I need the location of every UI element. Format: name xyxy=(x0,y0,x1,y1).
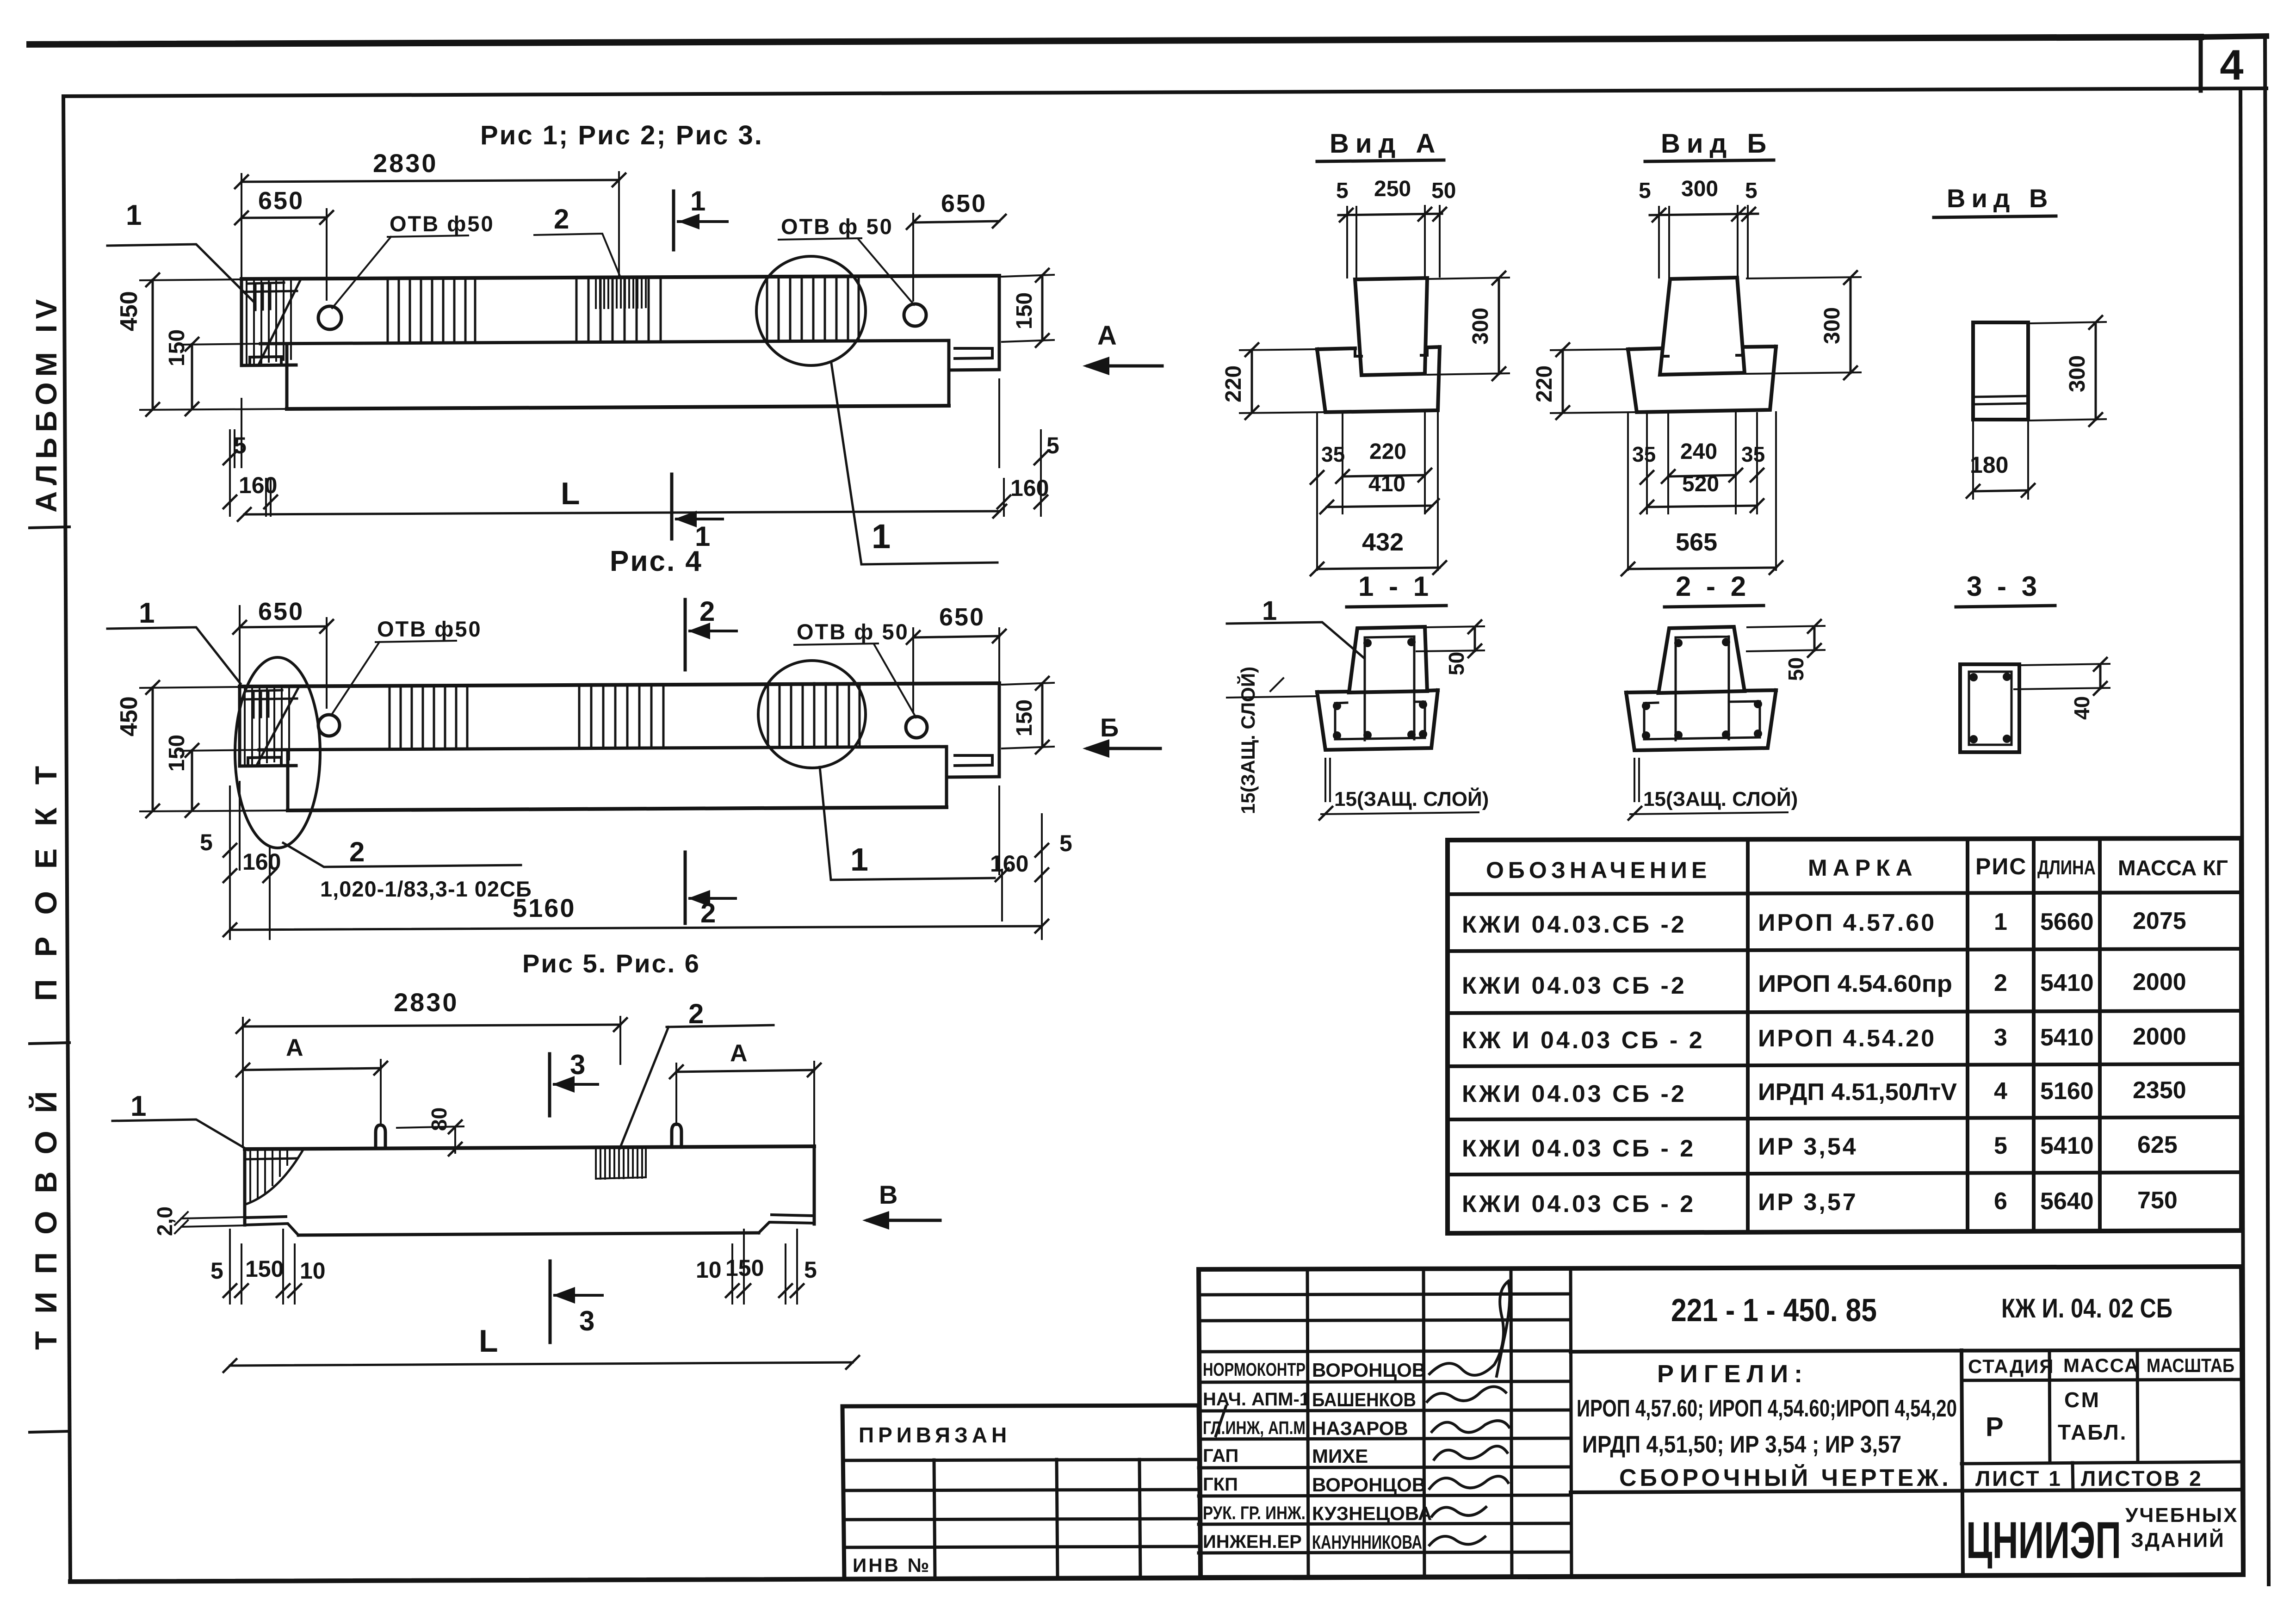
beam 3 bottom left bearing plate xyxy=(245,1217,298,1235)
signature table row lines xyxy=(1199,1294,1571,1553)
beam 1 dim 2830 ticks xyxy=(235,173,625,188)
svg-text:ИНЖЕН.ЕР: ИНЖЕН.ЕР xyxy=(1203,1532,1302,1552)
beam 2 dim 150 right extensions xyxy=(1002,683,1054,748)
signature table column lines xyxy=(1307,1268,1572,1577)
frame bottom line xyxy=(70,1575,2243,1582)
svg-text:ИРОП 4.57.60: ИРОП 4.57.60 xyxy=(1758,909,1936,936)
beam 3 section mark 3 bottom xyxy=(549,1261,552,1342)
svg-text:35: 35 xyxy=(1741,442,1765,466)
beam 2 dim 650 left extensions xyxy=(240,606,327,708)
svg-text:5660: 5660 xyxy=(2040,909,2094,935)
beam 1 dim 650 left extension xyxy=(326,209,328,300)
section 1-1 top part outline xyxy=(1349,627,1427,693)
beam 1 left bearing plate xyxy=(250,357,281,365)
svg-text:5: 5 xyxy=(234,433,247,458)
svg-text:КЖИ 04.03 СБ -2: КЖИ 04.03 СБ -2 xyxy=(1462,972,1687,999)
svg-text:МАСШТАБ: МАСШТАБ xyxy=(2147,1354,2234,1376)
svg-text:50: 50 xyxy=(1444,652,1468,675)
svg-text:160: 160 xyxy=(990,851,1028,877)
beam 2 left end anchor bar xyxy=(246,690,282,717)
svg-text:150: 150 xyxy=(245,1256,284,1282)
beam 1 dim 150 left line xyxy=(191,344,193,409)
svg-text:4: 4 xyxy=(1994,1078,2007,1105)
beam 2 left end bottom xyxy=(240,766,296,766)
svg-text:2: 2 xyxy=(700,897,716,928)
view Б dim 520 row xyxy=(1647,506,1757,507)
beam 2 ОТВ ф50 right underline and leader xyxy=(794,643,916,717)
svg-text:300: 300 xyxy=(2065,355,2090,392)
view A top dim line xyxy=(1338,214,1442,215)
svg-text:КАНУННИКОВА: КАНУННИКОВА xyxy=(1312,1531,1422,1553)
section 2-2 rebar dots xyxy=(1642,638,1762,740)
signature table name labels xyxy=(1312,1359,1432,1553)
beam 2 dim 150 left extension xyxy=(180,750,257,751)
beam 1 dim 650 left line xyxy=(241,217,327,218)
parts table row line 3 xyxy=(1448,1064,2241,1066)
top scan bar xyxy=(30,37,2201,44)
beam 1 left end bottom xyxy=(241,365,296,365)
frame right outer line xyxy=(2265,36,2269,1584)
parts table column line 2 xyxy=(1966,839,1969,1231)
view Б top dim line xyxy=(1650,214,1758,215)
svg-text:ТАБЛ.: ТАБЛ. xyxy=(2058,1420,2127,1444)
svg-text:ВОРОНЦОВ: ВОРОНЦОВ xyxy=(1312,1359,1426,1381)
fold mark 3 xyxy=(30,1431,69,1432)
svg-text:5: 5 xyxy=(1994,1132,2007,1159)
svg-text:300: 300 xyxy=(1468,308,1493,345)
svg-text:РИС: РИС xyxy=(1975,853,2027,879)
beam 2 right edge xyxy=(998,683,1001,777)
svg-text:ГАП: ГАП xyxy=(1203,1446,1238,1466)
beam 3 section mark 3 top xyxy=(548,1054,551,1116)
svg-text:СБОРОЧНЫЙ ЧЕРТЕЖ.: СБОРОЧНЫЙ ЧЕРТЕЖ. xyxy=(1619,1464,1952,1491)
svg-text:ПРОЕКТ: ПРОЕКТ xyxy=(29,744,63,1001)
svg-text:НАЗАРОВ: НАЗАРОВ xyxy=(1312,1417,1408,1439)
beam 2 dim 450 left extensions xyxy=(140,687,286,811)
parts table column line 1 xyxy=(1746,840,1750,1232)
svg-text:5: 5 xyxy=(1745,179,1758,203)
view Б dim 35 240 35 row xyxy=(1668,475,1736,476)
section 2-2 dim 50 right xyxy=(1747,626,1825,651)
parts table row line 2 xyxy=(1448,1011,2241,1013)
svg-text:ИР 3,57: ИР 3,57 xyxy=(1758,1189,1858,1216)
beam 1 dim 2830 extensions xyxy=(241,172,619,278)
beam 2 dim 450 left ticks xyxy=(146,681,159,817)
parts table outer border xyxy=(1448,838,2241,1233)
svg-text:625: 625 xyxy=(2137,1132,2178,1158)
section 1-1 bottom flange outline xyxy=(1317,690,1438,750)
stadия block value bottom line xyxy=(1962,1462,2241,1464)
svg-text:ПРИВЯЗАН: ПРИВЯЗАН xyxy=(859,1423,1011,1447)
svg-text:150: 150 xyxy=(1012,699,1037,736)
beam 2 detail circle xyxy=(758,661,866,768)
beam 1 ОТВ ф50 left underline and leader xyxy=(332,235,468,308)
view A dim 35 220 row xyxy=(1343,475,1425,476)
svg-text:410: 410 xyxy=(1368,472,1405,496)
parts table column line 3 xyxy=(2032,839,2036,1231)
svg-text:А: А xyxy=(1097,321,1117,351)
beam 1 section mark 1 bottom xyxy=(670,474,674,539)
svg-text:220: 220 xyxy=(1532,365,1557,402)
svg-text:СМ: СМ xyxy=(2064,1388,2101,1412)
section 1-1 dim 50 right xyxy=(1417,626,1484,651)
beam 2 deep section bottom xyxy=(288,807,947,810)
section 3-3 outline xyxy=(1960,664,2019,752)
svg-text:L: L xyxy=(561,476,580,511)
beam 2 deep section right edge xyxy=(945,747,948,807)
svg-text:5: 5 xyxy=(1046,433,1059,458)
svg-text:5: 5 xyxy=(1639,179,1651,203)
beam 2 detail ellipse xyxy=(235,657,320,848)
beam 1 dim 450 left line xyxy=(152,280,154,409)
svg-text:250: 250 xyxy=(1374,177,1411,201)
section 2-2 top part outline xyxy=(1659,627,1745,693)
svg-text:МАРКА: МАРКА xyxy=(1808,855,1918,881)
svg-text:650: 650 xyxy=(939,603,985,631)
svg-text:ОБОЗНАЧЕНИЕ: ОБОЗНАЧЕНИЕ xyxy=(1486,857,1711,883)
beam 2 detail 2 leader and label xyxy=(283,843,521,867)
beam 3 dim 2830 line xyxy=(243,1025,620,1027)
svg-text:160: 160 xyxy=(242,849,281,875)
svg-text:40: 40 xyxy=(2070,696,2094,720)
beam 2 bottom right dim ticks xyxy=(996,844,1048,881)
svg-text:3: 3 xyxy=(579,1305,594,1336)
svg-text:150: 150 xyxy=(165,735,189,772)
beam 1 dim 150 right extensions xyxy=(1002,275,1054,342)
beam 2 left edge xyxy=(238,686,241,766)
view Б top part outline xyxy=(1660,278,1745,375)
beam 3 left end hatch xyxy=(250,1150,287,1202)
svg-text:А: А xyxy=(286,1034,303,1061)
view A top dim ticks xyxy=(1340,208,1446,222)
svg-text:Б: Б xyxy=(1100,713,1119,742)
svg-text:1: 1 xyxy=(872,517,891,556)
svg-text:ЛИСТОВ 2: ЛИСТОВ 2 xyxy=(2081,1466,2203,1490)
svg-text:220: 220 xyxy=(1221,365,1246,402)
beam 2 left bearing plate xyxy=(248,757,281,766)
view A dim 300 right xyxy=(1428,278,1509,375)
svg-text:1: 1 xyxy=(1994,909,2007,935)
frame left line xyxy=(63,96,70,1582)
view В dim 180 bottom xyxy=(1973,421,2028,499)
svg-text:Рис 5. Рис. 6: Рис 5. Рис. 6 xyxy=(522,949,700,978)
svg-text:450: 450 xyxy=(116,291,142,331)
svg-text:1: 1 xyxy=(690,186,706,216)
svg-text:1: 1 xyxy=(130,1090,146,1122)
parts table row 2 xyxy=(1462,969,2186,999)
beam 3 mid anchor hatch xyxy=(596,1148,646,1179)
beam 2 section mark 2 bottom xyxy=(684,852,687,923)
parts table row 4 xyxy=(1462,1077,2186,1107)
svg-text:РИГЕЛИ:: РИГЕЛИ: xyxy=(1657,1360,1808,1388)
beam 1 dim 650 right line xyxy=(913,221,999,223)
svg-text:Вид В: Вид В xyxy=(1947,184,2054,213)
beam 2 dim 150 right line xyxy=(1041,683,1044,747)
view Б dim 565 row xyxy=(1628,568,1776,569)
svg-text:3: 3 xyxy=(1994,1024,2007,1051)
beam 2 dim 650 left ticks xyxy=(233,620,333,634)
beam 3 dim L ticks xyxy=(223,1356,859,1372)
svg-text:ОТВ ф50: ОТВ ф50 xyxy=(377,617,482,641)
svg-text:КЖИ 04.03 СБ - 2: КЖИ 04.03 СБ - 2 xyxy=(1462,1135,1696,1162)
beam 3 lifting loop left xyxy=(376,1125,385,1148)
svg-text:ОТВ ф 50: ОТВ ф 50 xyxy=(797,619,909,644)
svg-text:300: 300 xyxy=(1820,307,1844,344)
svg-text:БАШЕНКОВ: БАШЕНКОВ xyxy=(1312,1389,1416,1410)
svg-text:УЧЕБНЫХ: УЧЕБНЫХ xyxy=(2125,1504,2238,1527)
parts table row 6 xyxy=(1462,1187,2178,1218)
svg-text:6: 6 xyxy=(1994,1188,2007,1215)
view Б top dim ticks xyxy=(1652,208,1755,222)
svg-text:L: L xyxy=(479,1323,498,1359)
beam 1 hatch group 1 xyxy=(388,278,475,342)
svg-text:2: 2 xyxy=(1994,970,2007,996)
svg-text:4: 4 xyxy=(2220,42,2243,89)
beam 2 left end horizontal rib xyxy=(240,699,297,699)
beam 1 web bottom line xyxy=(260,340,949,344)
beam 3 bottom right bearing plate xyxy=(759,1215,814,1233)
beam 2 dim 5160 ticks xyxy=(223,920,1048,936)
beam 3 right edge xyxy=(813,1146,816,1224)
parts table row line 4 xyxy=(1448,1117,2241,1119)
beam 2 right bearing notch xyxy=(955,755,992,766)
svg-text:ВОРОНЦОВ: ВОРОНЦОВ xyxy=(1312,1474,1426,1496)
view A shoe notch steps xyxy=(1355,347,1427,356)
svg-text:3 - 3: 3 - 3 xyxy=(1967,571,2041,602)
beam 1 section mark 1 top xyxy=(672,191,675,250)
svg-text:5: 5 xyxy=(804,1257,817,1283)
beam 1 bottom right dim ticks xyxy=(997,451,1047,508)
привязан header separator xyxy=(843,1459,1199,1460)
svg-text:КЖ И. 04. 02 СБ: КЖ И. 04. 02 СБ xyxy=(2001,1293,2172,1323)
page number box xyxy=(2201,36,2266,37)
svg-text:Рис. 4: Рис. 4 xyxy=(610,545,703,577)
svg-text:35: 35 xyxy=(1321,442,1345,466)
view A dim 432 row xyxy=(1317,568,1440,569)
привязан column lines xyxy=(934,1459,1140,1578)
svg-text:КЖИ 04.03.СБ -2: КЖИ 04.03.СБ -2 xyxy=(1462,911,1687,938)
beam 3 bottom left dim ticks xyxy=(223,1284,301,1297)
svg-text:В: В xyxy=(879,1180,897,1209)
beam 1 hole left ОТВ ф50 xyxy=(318,306,341,329)
section 1-1 rebar dots xyxy=(1333,638,1427,740)
beam 3 dim L line xyxy=(230,1362,853,1366)
svg-text:35: 35 xyxy=(1632,442,1656,466)
section 2-2 bottom flange outline xyxy=(1626,690,1776,750)
beam 1 hatch group 2 xyxy=(576,277,661,341)
beam 1 deep section right edge xyxy=(947,340,951,406)
beam 2 hatch group 2 xyxy=(579,684,663,748)
beam 1 bottom left dim extensions xyxy=(230,399,271,516)
beam 1 left end hatch xyxy=(247,279,291,364)
svg-text:1 - 1: 1 - 1 xyxy=(1358,571,1432,602)
beam 3 bottom left dim extensions xyxy=(230,1230,295,1304)
beam 3 dim 2830 ticks xyxy=(236,1018,627,1033)
svg-text:ИРОП 4.54.20: ИРОП 4.54.20 xyxy=(1758,1025,1936,1052)
svg-text:300: 300 xyxy=(1681,177,1718,201)
beam 1 dim 650 right ticks xyxy=(907,215,1006,229)
svg-text:1: 1 xyxy=(139,597,155,629)
svg-text:150: 150 xyxy=(725,1255,764,1281)
beam 1 right end bottom xyxy=(949,370,999,370)
beam 1 hole right ОТВ ф50 xyxy=(904,304,926,326)
beam 2 hatch group 3 in detail circle xyxy=(768,683,860,747)
svg-text:3: 3 xyxy=(570,1049,585,1080)
svg-text:160: 160 xyxy=(239,472,277,498)
title block lower band separator xyxy=(1571,1490,2241,1492)
view В outline xyxy=(1973,322,2028,420)
svg-text:2: 2 xyxy=(554,204,569,235)
view A bottom dims extensions xyxy=(1317,412,1438,570)
parts table column line 4 xyxy=(2098,839,2102,1231)
svg-text:520: 520 xyxy=(1682,472,1719,496)
view Б dim 220 left xyxy=(1551,349,1635,413)
stadия block column lines xyxy=(2049,1350,2138,1463)
parts table header texts xyxy=(1486,853,2228,883)
beam 1 right edge xyxy=(998,276,1001,370)
beam 2 hatch group 1 xyxy=(390,685,467,749)
svg-text:750: 750 xyxy=(2137,1187,2178,1214)
svg-text:10: 10 xyxy=(300,1258,326,1284)
beam 1 dim 450 left extensions xyxy=(140,279,285,410)
section 1-1 bottom label 15 защ слой xyxy=(1325,759,1330,801)
svg-text:5: 5 xyxy=(200,829,213,855)
привязан table outer border xyxy=(842,1405,1201,1579)
svg-text:ИРОП 4.54.60пр: ИРОП 4.54.60пр xyxy=(1758,971,1952,997)
svg-text:ИРДП 4,51,50; ИР 3,54 ; ИР 3: ИРДП 4,51,50; ИР 3,54 ; ИР 3,57 xyxy=(1582,1431,1901,1458)
beam 3 top edge xyxy=(245,1146,814,1149)
section 3-3 rebar dots xyxy=(1969,673,2011,743)
beam 2 hole left ОТВ ф50 xyxy=(318,715,340,736)
svg-text:5: 5 xyxy=(1336,179,1349,203)
svg-text:1: 1 xyxy=(1262,596,1277,626)
svg-text:5410: 5410 xyxy=(2040,1024,2094,1051)
beam 1 deep section left edge xyxy=(285,344,289,409)
beam 1 left end bevel diagonal xyxy=(259,279,301,364)
view A top dim extensions xyxy=(1347,206,1440,278)
beam 1 left end horizontal rib xyxy=(241,291,297,292)
svg-text:15(ЗАЩ. СЛОЙ): 15(ЗАЩ. СЛОЙ) xyxy=(1334,787,1489,810)
beam 2 web bottom line xyxy=(259,747,947,750)
beam 2 right end bottom xyxy=(947,777,999,777)
svg-text:450: 450 xyxy=(116,696,142,736)
svg-text:2830: 2830 xyxy=(394,988,459,1017)
beam 2 hole right ОТВ ф50 xyxy=(906,717,927,738)
beam 1 dim 2830 line xyxy=(241,180,619,182)
view A bottom shoe outline xyxy=(1317,347,1440,412)
svg-text:220: 220 xyxy=(1369,439,1406,464)
svg-text:2: 2 xyxy=(688,998,704,1029)
beam 1 dense anchor hatch group 2 top xyxy=(596,277,646,308)
beam 3 bottom main line xyxy=(298,1233,759,1235)
svg-text:КЖИ 04.03 СБ - 2: КЖИ 04.03 СБ - 2 xyxy=(1462,1191,1696,1218)
svg-text:5410: 5410 xyxy=(2040,970,2094,996)
svg-text:РУК. ГР. ИНЖ.: РУК. ГР. ИНЖ. xyxy=(1203,1503,1306,1523)
fold mark 1 xyxy=(30,527,69,528)
beam 1 right bearing notch xyxy=(955,348,992,359)
svg-text:565: 565 xyxy=(1676,528,1717,556)
svg-text:2830: 2830 xyxy=(373,148,438,178)
beam 1 bottom right dim extensions xyxy=(999,379,1041,516)
frame right inner line xyxy=(2240,89,2244,1575)
svg-text:240: 240 xyxy=(1680,439,1717,464)
svg-text:МАССА: МАССА xyxy=(2063,1354,2139,1376)
svg-text:5: 5 xyxy=(210,1258,223,1284)
svg-text:2 - 2: 2 - 2 xyxy=(1676,571,1750,602)
beam 1 left edge xyxy=(240,279,243,365)
svg-text:2350: 2350 xyxy=(2133,1077,2186,1104)
svg-text:АЛЬБОМ IV: АЛЬБОМ IV xyxy=(30,294,63,513)
svg-text:650: 650 xyxy=(941,190,987,217)
parts table row 1 xyxy=(1462,908,2186,938)
svg-text:1: 1 xyxy=(695,521,710,552)
beam 1 detail circle xyxy=(756,256,866,365)
svg-text:Вид А: Вид А xyxy=(1330,129,1442,159)
svg-text:50: 50 xyxy=(1431,179,1456,203)
section 2-2 bottom label 15 защ слой xyxy=(1634,759,1639,801)
svg-text:5640: 5640 xyxy=(2040,1188,2094,1215)
beam 3 left edge xyxy=(243,1149,247,1225)
svg-text:КУЗНЕЦОВА: КУЗНЕЦОВА xyxy=(1312,1503,1432,1524)
svg-text:5: 5 xyxy=(1059,830,1072,856)
svg-text:1: 1 xyxy=(850,841,868,878)
central divider xyxy=(1962,1350,1963,1576)
svg-text:МИХЕ: МИХЕ xyxy=(1312,1445,1368,1467)
beam 2 dim 650 right extensions xyxy=(913,628,999,712)
svg-text:ЛИСТ 1: ЛИСТ 1 xyxy=(1975,1466,2062,1490)
stadия block header line xyxy=(1962,1379,2241,1380)
beam 1 dim 150 left extension xyxy=(180,344,259,345)
view Б bottom shoe outline xyxy=(1628,346,1776,412)
svg-text:ИР 3,54: ИР 3,54 xyxy=(1758,1133,1858,1160)
svg-text:ЦНИИЭП: ЦНИИЭП xyxy=(1966,1511,2121,1569)
title block outer border xyxy=(1199,1267,2243,1577)
beam 2 leader to detail label 1 xyxy=(820,767,995,880)
лист divider xyxy=(2073,1463,2073,1490)
svg-text:432: 432 xyxy=(1362,528,1404,556)
svg-text:А: А xyxy=(730,1040,748,1067)
beam 1 hatch group 3 in detail circle xyxy=(767,277,859,341)
svg-text:СТАДИЯ: СТАДИЯ xyxy=(1968,1355,2054,1377)
beam 1 bottom left dim ticks xyxy=(223,451,277,508)
svg-text:650: 650 xyxy=(258,598,304,625)
beam 1 deep section bottom xyxy=(287,406,949,409)
beam 2 left end bevel diagonal xyxy=(257,687,299,764)
parts table header separator xyxy=(1448,892,2241,894)
beam 1 leader to detail label 1 xyxy=(831,363,997,564)
svg-text:Вид Б: Вид Б xyxy=(1661,129,1773,159)
view A top part outline xyxy=(1355,278,1427,375)
beam 1 dim 150 right line xyxy=(1041,275,1044,340)
signature squiggles xyxy=(1427,1281,1510,1545)
svg-text:15(ЗАЩ. СЛОЙ): 15(ЗАЩ. СЛОЙ) xyxy=(1643,787,1798,810)
svg-text:180: 180 xyxy=(1970,452,2008,478)
beam 2 section mark 2 top xyxy=(684,600,687,670)
svg-text:НАЧ. АПМ-1: НАЧ. АПМ-1 xyxy=(1203,1389,1310,1410)
svg-text:ИРДП 4.51,50ЛтV: ИРДП 4.51,50ЛтV xyxy=(1758,1079,1957,1106)
beam 3 lifting loop right xyxy=(672,1124,681,1147)
view Б shoe notch steps xyxy=(1662,347,1743,356)
beam 1 dim L line xyxy=(244,511,1000,514)
svg-text:221 - 1 - 450. 85: 221 - 1 - 450. 85 xyxy=(1671,1292,1877,1328)
svg-text:150: 150 xyxy=(1012,292,1037,329)
slash mark left of signature table xyxy=(1216,1406,1226,1436)
parts table row line 1 xyxy=(1448,949,2241,951)
view В dim 300 right xyxy=(2031,322,2106,421)
beam 2 dim 150 left ticks xyxy=(186,744,198,817)
svg-text:ОТВ ф50: ОТВ ф50 xyxy=(390,211,495,236)
beam 2 bottom left dim ticks xyxy=(223,844,276,882)
